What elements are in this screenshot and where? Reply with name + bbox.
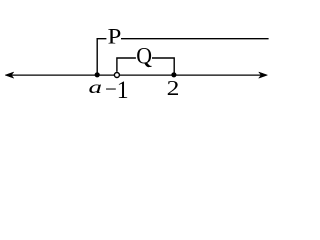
svg-text:−: − — [105, 77, 117, 101]
svg-text:a: a — [89, 78, 102, 98]
svg-text:P: P — [108, 25, 122, 49]
svg-text:Q: Q — [136, 43, 152, 69]
svg-text:1: 1 — [117, 76, 129, 104]
svg-text:2: 2 — [167, 77, 180, 100]
